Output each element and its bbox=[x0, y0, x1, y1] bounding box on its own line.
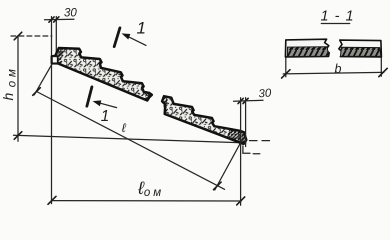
svg-text:30: 30 bbox=[258, 87, 272, 100]
svg-text:1: 1 bbox=[137, 19, 147, 38]
svg-text:1: 1 bbox=[101, 108, 110, 125]
svg-text:30: 30 bbox=[64, 7, 77, 19]
svg-text:b: b bbox=[335, 62, 342, 76]
svg-text:1 - 1: 1 - 1 bbox=[321, 9, 355, 25]
